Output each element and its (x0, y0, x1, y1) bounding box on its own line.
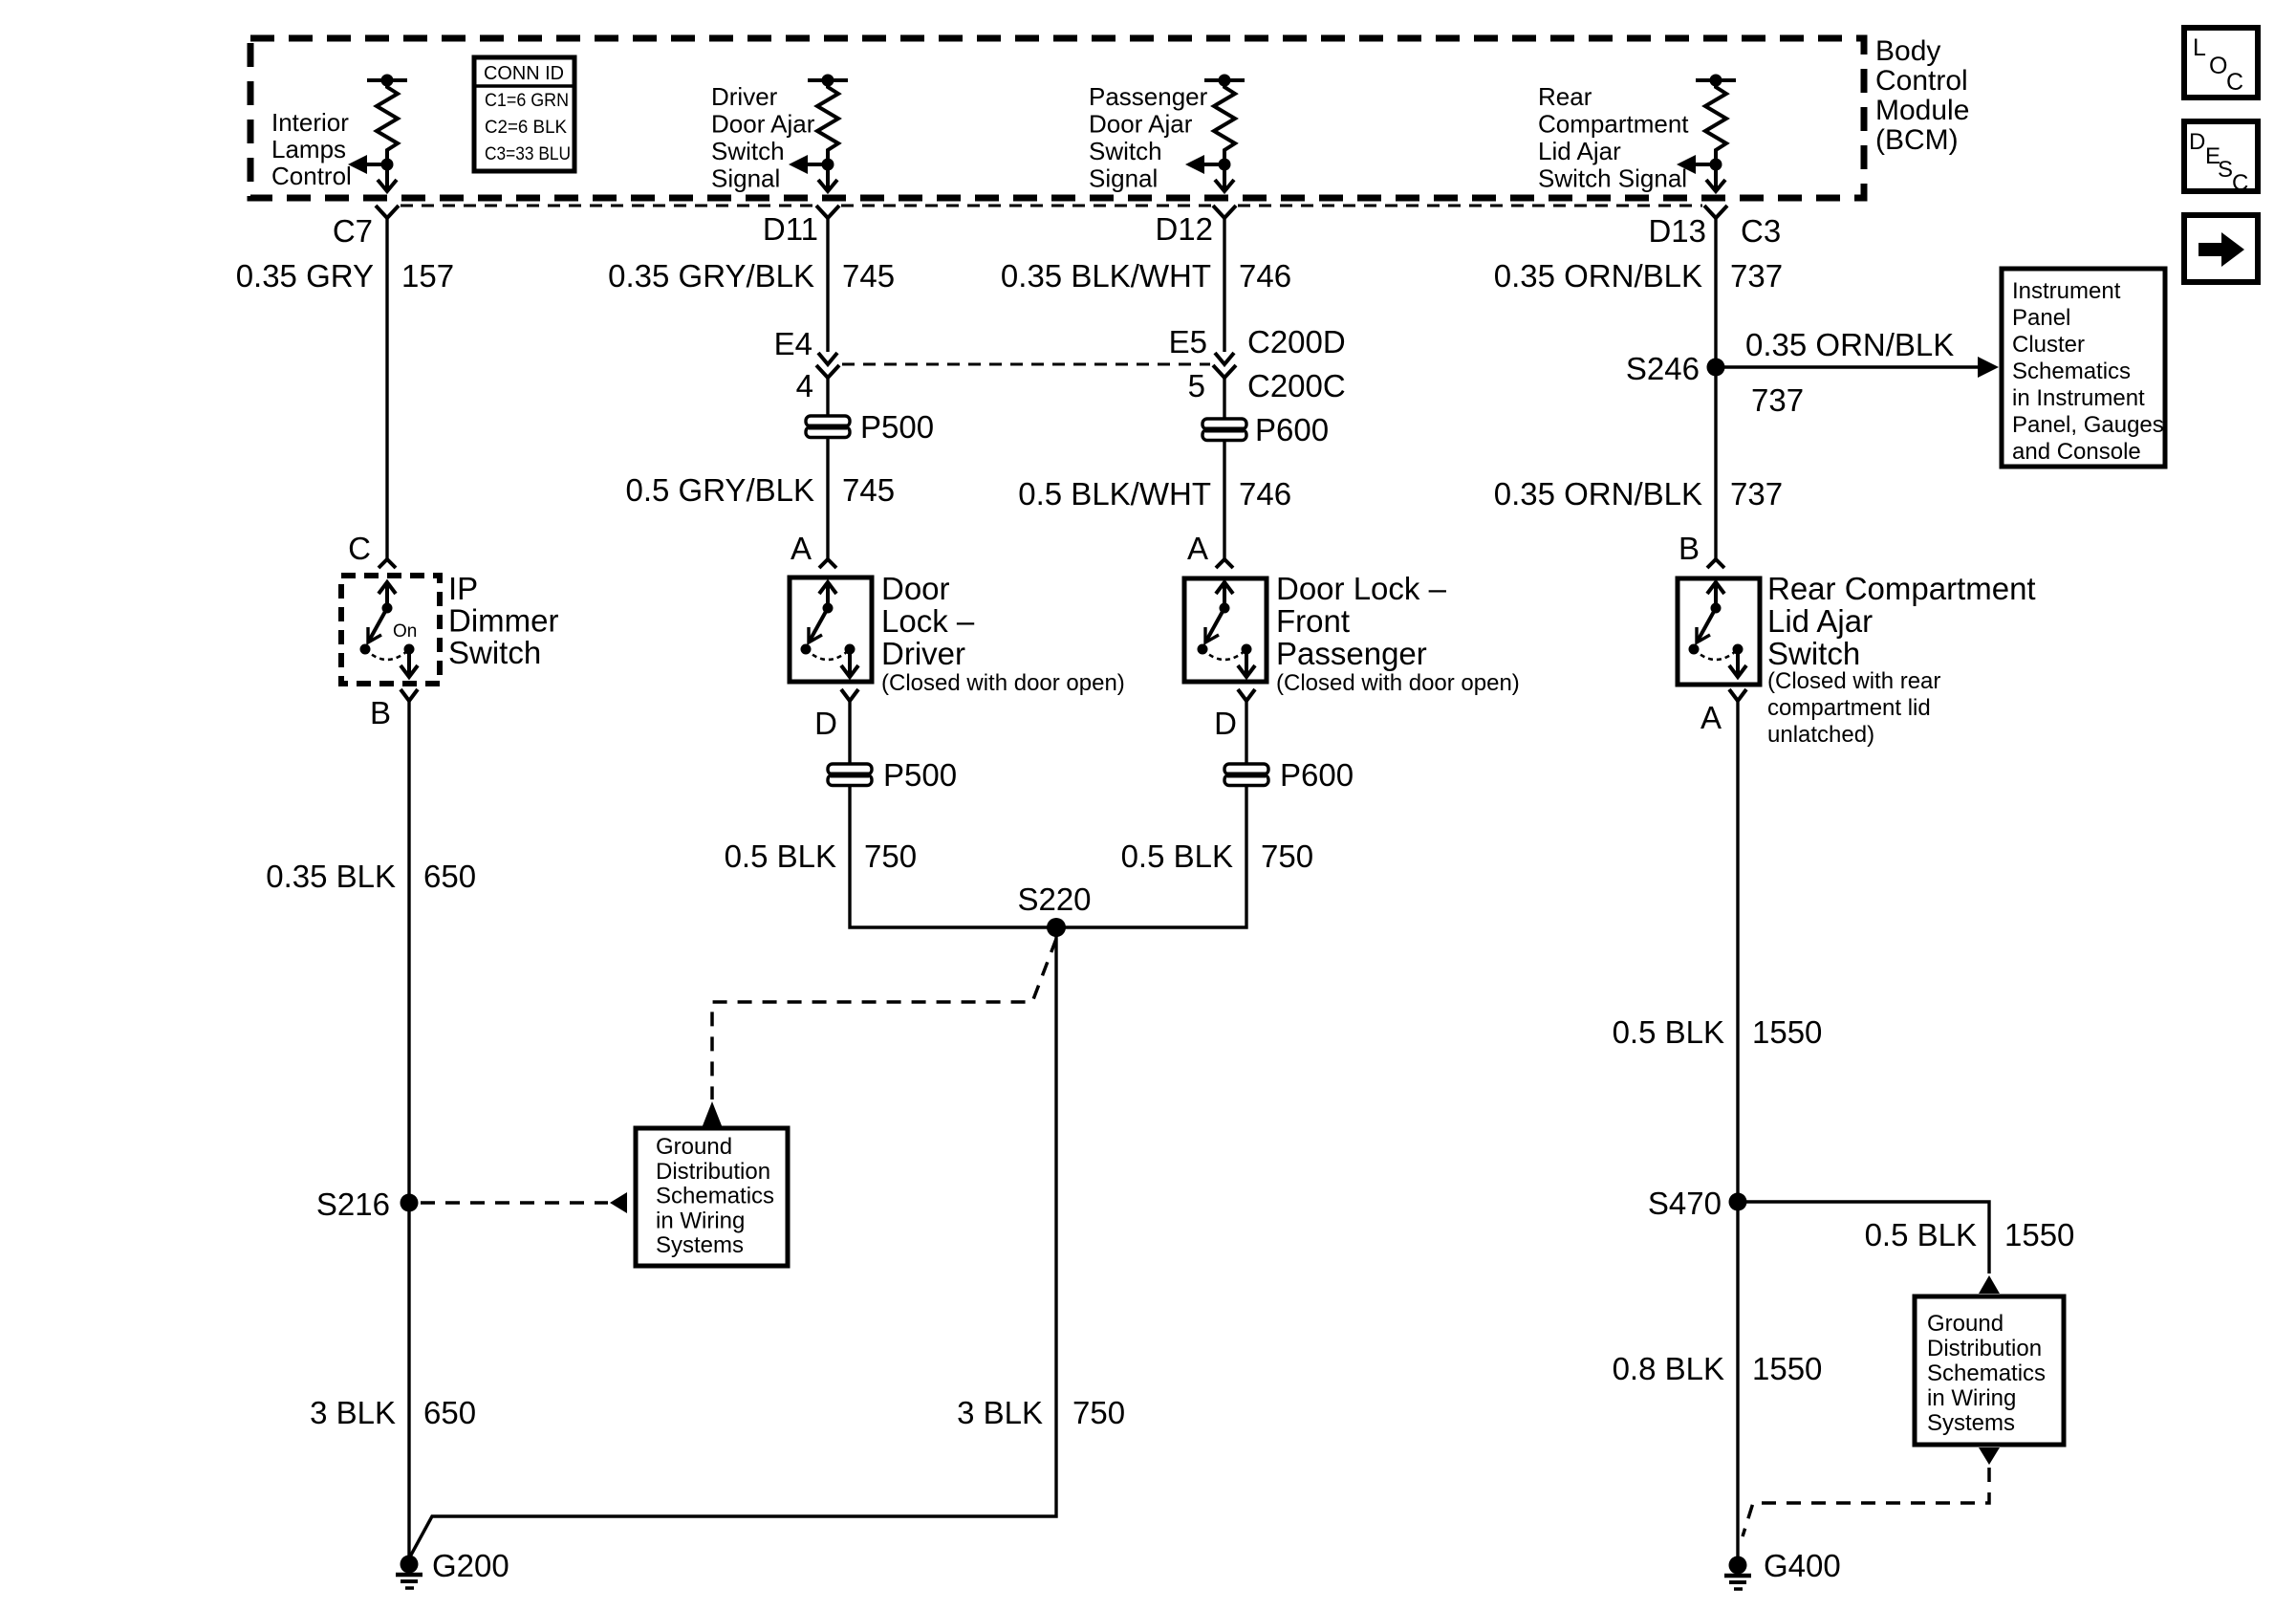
svg-text:Control: Control (1875, 65, 1968, 97)
svg-text:Driver: Driver (881, 636, 965, 671)
wire 737 ORN/BLK upper segment (D13/C3 to S246) (1714, 218, 1717, 559)
Body Control Module (BCM) dashed box (250, 38, 1864, 198)
BCM pin exit wire w/ arrowhead col x=1795 (1706, 164, 1725, 191)
wire segment driver switch to P500 lower (848, 701, 851, 763)
resistor R interior lamps control (BCM internal pull-up) (367, 75, 407, 171)
svg-text:0.35 ORN/BLK: 0.35 ORN/BLK (1494, 258, 1702, 294)
BCM signal label: Passenger Door Ajar Switch Signal (1089, 82, 1208, 193)
svg-text:S246: S246 (1626, 351, 1700, 386)
C200 chevron col3 (1213, 365, 1236, 378)
svg-text:Module: Module (1875, 95, 1969, 126)
door lock front passenger switch internals (1198, 582, 1256, 677)
svg-text:750: 750 (864, 838, 917, 874)
terminal chevron above rear switch (1707, 559, 1724, 568)
connector terminal chevron at x=405 (376, 206, 399, 218)
BCM name label (1875, 35, 1969, 156)
svg-text:Schematics: Schematics (1927, 1361, 2046, 1386)
IP dimmer switch dashed box (341, 576, 440, 684)
terminal chevron below dimmer switch (401, 689, 418, 701)
svg-text:3 BLK: 3 BLK (310, 1395, 396, 1430)
wire label 0.5 GRY/BLK 745 (625, 472, 895, 508)
wire label 0.5 BLK 750 (driver side) (725, 838, 917, 874)
svg-text:Front: Front (1276, 603, 1350, 639)
svg-text:(BCM): (BCM) (1875, 124, 1959, 156)
wire 750 BLK segment (P500 to S220) (850, 786, 1056, 927)
svg-text:C200C: C200C (1247, 368, 1346, 403)
svg-text:Ground: Ground (656, 1134, 732, 1160)
Rear Compartment Lid Ajar Switch label (1767, 571, 2036, 748)
svg-text:Switch Signal: Switch Signal (1538, 164, 1687, 193)
svg-text:B: B (370, 695, 391, 730)
terminal 5 / connector C200C (1188, 368, 1346, 403)
terminal chevron above passenger switch (1216, 559, 1233, 568)
svg-text:C1=6 GRN: C1=6 GRN (485, 90, 569, 111)
connector terminal chevron at x=1281 (1213, 206, 1236, 218)
svg-text:A: A (1187, 531, 1208, 566)
BCM signal label: Interior Lamps Control (271, 108, 352, 190)
svg-text:0.35 ORN/BLK: 0.35 ORN/BLK (1494, 476, 1702, 512)
svg-text:Panel, Gauges: Panel, Gauges (2012, 412, 2164, 438)
wire 650 BLK segment (dimmer to G200) (407, 701, 410, 1560)
resistor R rear compartment lid ajar (BCM internal pull-up) (1696, 75, 1736, 171)
svg-text:737: 737 (1751, 382, 1804, 418)
svg-text:0.35 GRY/BLK: 0.35 GRY/BLK (608, 258, 814, 294)
svg-text:Lid Ajar: Lid Ajar (1767, 603, 1873, 639)
svg-text:5: 5 (1188, 368, 1205, 403)
grommet P500 (upper) (806, 409, 934, 445)
ground distribution schematics box (left) (636, 1128, 788, 1266)
svg-text:C: C (2232, 170, 2248, 196)
forward arrow box (2184, 215, 2258, 282)
svg-text:On: On (393, 621, 417, 642)
DESC reference box (2184, 121, 2258, 196)
terminal chevron above dimmer switch (379, 559, 396, 568)
svg-text:1550: 1550 (1752, 1351, 1822, 1386)
svg-text:0.5 BLK: 0.5 BLK (1613, 1014, 1724, 1050)
svg-text:746: 746 (1239, 476, 1291, 512)
svg-text:A: A (1700, 700, 1722, 735)
svg-text:1550: 1550 (1752, 1014, 1822, 1050)
svg-text:745: 745 (842, 472, 895, 508)
Door Lock Driver label (881, 571, 1125, 696)
svg-text:P500: P500 (860, 409, 934, 445)
wire 750 BLK segment (S220 to G200) (409, 927, 1056, 1558)
C200 arrowhead col2 (818, 353, 837, 364)
svg-text:Signal: Signal (711, 164, 780, 193)
svg-text:(Closed with door open): (Closed with door open) (881, 670, 1125, 696)
svg-text:Distribution: Distribution (1927, 1336, 2042, 1361)
svg-text:0.35 ORN/BLK: 0.35 ORN/BLK (1745, 327, 1954, 362)
splice S246 (1626, 351, 1725, 386)
svg-text:0.5 BLK/WHT: 0.5 BLK/WHT (1018, 476, 1211, 512)
resistor R driver door ajar (BCM internal pull-up) (808, 75, 848, 171)
IP Dimmer Switch label (448, 571, 558, 670)
svg-text:0.5 BLK: 0.5 BLK (1865, 1217, 1977, 1252)
terminal chevron below rear switch (1729, 689, 1746, 701)
svg-text:1550: 1550 (2004, 1217, 2074, 1252)
svg-text:Distribution: Distribution (656, 1159, 770, 1185)
svg-text:Signal: Signal (1089, 164, 1158, 193)
wire 1550 BLK segment (rear switch to S470) (1736, 701, 1739, 1560)
svg-text:in Wiring: in Wiring (1927, 1385, 2016, 1411)
svg-text:Passenger: Passenger (1089, 82, 1208, 111)
svg-text:Door Ajar: Door Ajar (711, 110, 815, 139)
svg-text:in Instrument: in Instrument (2012, 385, 2145, 411)
ground G400 (1724, 1548, 1841, 1589)
svg-text:Cluster: Cluster (2012, 332, 2085, 358)
wire label 0.35 GRY/BLK 745 (608, 258, 895, 294)
svg-text:745: 745 (842, 258, 895, 294)
svg-text:Systems: Systems (1927, 1410, 2015, 1436)
svg-text:0.8 BLK: 0.8 BLK (1613, 1351, 1724, 1386)
signal tap arrow at R passenger door ajar (1185, 155, 1224, 174)
C200 arrowhead col3 (1215, 353, 1234, 364)
S470 branch wire to ground distribution box (right) (1738, 1202, 2074, 1294)
svg-text:D: D (814, 706, 837, 741)
svg-text:0.5 BLK: 0.5 BLK (1121, 838, 1233, 874)
svg-text:C7: C7 (333, 213, 373, 249)
svg-text:G200: G200 (432, 1548, 509, 1583)
terminal E5 / connector C200D (1169, 324, 1346, 359)
svg-text:3 BLK: 3 BLK (957, 1395, 1043, 1430)
wire label 0.8 BLK 1550 (1613, 1351, 1823, 1386)
svg-text:Rear: Rear (1538, 82, 1592, 111)
wire label 0.5 BLK/WHT 746 (1018, 476, 1291, 512)
splice S470 (1648, 1186, 1747, 1221)
svg-text:Compartment: Compartment (1538, 110, 1689, 139)
wire label 0.35 ORN/BLK 737 (lower) (1494, 476, 1783, 512)
svg-text:C: C (2226, 69, 2243, 96)
svg-text:Switch: Switch (711, 137, 785, 165)
svg-text:E5: E5 (1169, 324, 1207, 359)
door lock driver switch internals (801, 582, 859, 677)
LOC reference box (2184, 28, 2258, 98)
svg-text:0.5 BLK: 0.5 BLK (725, 838, 836, 874)
wire 745 GRY/BLK lower segment (P500 to switch) (826, 438, 829, 559)
svg-text:Lamps: Lamps (271, 135, 346, 163)
signal tap arrow at R rear compartment lid ajar (1677, 155, 1716, 174)
svg-text:A: A (791, 531, 812, 566)
svg-text:Schematics: Schematics (656, 1184, 774, 1209)
door lock front passenger switch box (1184, 578, 1267, 682)
wire 745 GRY/BLK upper segment (D11 to C200) (826, 218, 829, 352)
svg-text:Rear Compartment: Rear Compartment (1767, 571, 2036, 606)
CONN ID table (474, 57, 574, 171)
svg-text:Switch: Switch (1089, 137, 1162, 165)
svg-text:0.5 GRY/BLK: 0.5 GRY/BLK (625, 472, 814, 508)
svg-text:Systems: Systems (656, 1232, 744, 1258)
wire label 0.35 ORN/BLK 737 (upper) (1494, 258, 1783, 294)
splice S220 (1017, 882, 1091, 937)
svg-text:650: 650 (423, 859, 476, 894)
wire label 0.35 GRY 157 (236, 258, 454, 294)
wire segment C200 to P500 (826, 378, 829, 415)
svg-text:750: 750 (1261, 838, 1313, 874)
resistor R passenger door ajar (BCM internal pull-up) (1204, 75, 1245, 171)
svg-text:737: 737 (1730, 476, 1783, 512)
S216 reference dashed line to ground distribution box (421, 1192, 627, 1213)
svg-text:Body: Body (1875, 35, 1940, 67)
svg-text:0.35 BLK/WHT: 0.35 BLK/WHT (1001, 258, 1211, 294)
svg-text:750: 750 (1072, 1395, 1125, 1430)
svg-text:Switch: Switch (448, 635, 541, 670)
svg-text:4: 4 (796, 368, 813, 403)
svg-text:B: B (1679, 531, 1700, 566)
terminal chevron below driver switch (841, 689, 858, 701)
svg-text:in Wiring: in Wiring (656, 1208, 745, 1233)
svg-text:and Console: and Console (2012, 439, 2141, 465)
wire segment passenger switch to P600 lower (1245, 701, 1247, 763)
svg-text:0.35 BLK: 0.35 BLK (266, 859, 396, 894)
svg-text:C: C (348, 531, 371, 566)
rear compartment lid ajar switch box (1678, 578, 1760, 685)
svg-text:P500: P500 (883, 757, 957, 793)
BCM pin exit wire w/ arrowhead col x=866 (818, 164, 837, 191)
BCM signal label: Rear Compartment Lid Ajar Switch Signal (1538, 82, 1689, 193)
grommet P600 (lower) (1224, 757, 1354, 793)
connector terminal chevron at x=1795 (1704, 206, 1727, 218)
svg-text:C3=33 BLU: C3=33 BLU (485, 143, 571, 164)
svg-text:Driver: Driver (711, 82, 778, 111)
svg-text:0.35 GRY: 0.35 GRY (236, 258, 374, 294)
svg-text:650: 650 (423, 1395, 476, 1430)
svg-text:G400: G400 (1764, 1548, 1841, 1583)
svg-text:O: O (2209, 53, 2227, 79)
svg-text:P600: P600 (1255, 412, 1329, 447)
door lock driver switch box (790, 577, 872, 682)
svg-text:L: L (2193, 34, 2206, 61)
svg-text:Dimmer: Dimmer (448, 603, 558, 639)
svg-text:Lid Ajar: Lid Ajar (1538, 137, 1621, 165)
svg-text:Switch: Switch (1767, 636, 1860, 671)
svg-text:D12: D12 (1155, 211, 1213, 247)
reference arrow below right ground box (1743, 1448, 2000, 1536)
wire label 3 BLK 750 (957, 1395, 1125, 1430)
svg-text:S470: S470 (1648, 1186, 1722, 1221)
wire label 3 BLK 650 (310, 1395, 476, 1430)
wire label 0.5 BLK 1550 (1613, 1014, 1823, 1050)
signal tap arrow at R driver door ajar (789, 155, 828, 174)
svg-text:D: D (1214, 706, 1237, 741)
svg-text:E4: E4 (774, 326, 812, 361)
ground G200 (396, 1548, 509, 1588)
svg-text:Ground: Ground (1927, 1311, 2004, 1337)
svg-text:C3: C3 (1741, 213, 1781, 249)
wire 750 BLK segment (P600 to S220) (1056, 786, 1246, 927)
connector C200 dashed line (842, 363, 1210, 366)
svg-text:unlatched): unlatched) (1767, 722, 1874, 748)
connector terminal chevron at x=866 (816, 206, 839, 218)
svg-text:Door Ajar: Door Ajar (1089, 110, 1193, 139)
BCM signal label: Driver Door Ajar Switch Signal (711, 82, 815, 193)
svg-text:D11: D11 (763, 211, 818, 247)
ground distribution schematics box (right) (1915, 1296, 2064, 1445)
svg-text:C200D: C200D (1247, 324, 1346, 359)
wire 746 BLK/WHT lower segment (1223, 441, 1225, 559)
C200 chevron col2 (816, 365, 839, 378)
instrument panel cluster schematics box (2002, 269, 2165, 467)
svg-text:CONN ID: CONN ID (484, 62, 564, 84)
Door Lock Front Passenger label (1276, 571, 1520, 696)
rear compartment lid ajar switch internals (1689, 582, 1747, 677)
signal tap arrow at R interior lamps control (348, 155, 387, 174)
terminal chevron below passenger switch (1238, 689, 1255, 701)
BCM pin exit wire w/ arrowhead col x=1281 (1215, 164, 1234, 191)
wire segment C200 to P600 (1223, 378, 1225, 418)
BCM pin exit wire w/ arrowhead col x=405 (378, 164, 397, 191)
svg-text:Passenger: Passenger (1276, 636, 1427, 671)
svg-text:D: D (2189, 129, 2205, 155)
svg-text:Door: Door (881, 571, 950, 606)
svg-text:Interior: Interior (271, 108, 349, 137)
svg-text:(Closed with rear: (Closed with rear (1767, 668, 1940, 694)
svg-text:Control: Control (271, 162, 352, 190)
svg-text:157: 157 (401, 258, 454, 294)
svg-text:C2=6 BLK: C2=6 BLK (485, 117, 567, 138)
svg-text:S220: S220 (1017, 882, 1091, 917)
svg-text:IP: IP (448, 571, 478, 606)
svg-text:737: 737 (1730, 258, 1783, 294)
svg-text:Panel: Panel (2012, 305, 2070, 331)
grommet P500 (lower) (828, 757, 957, 793)
svg-text:Instrument: Instrument (2012, 278, 2121, 304)
svg-text:Schematics: Schematics (2012, 359, 2131, 384)
svg-text:compartment lid: compartment lid (1767, 695, 1931, 721)
svg-text:(Closed with door open): (Closed with door open) (1276, 670, 1520, 696)
S220 reference dashed line to ground distribution box (702, 939, 1056, 1128)
svg-text:746: 746 (1239, 258, 1291, 294)
svg-text:Door Lock –: Door Lock – (1276, 571, 1447, 606)
wire label 0.35 BLK/WHT 746 (1001, 258, 1291, 294)
IP dimmer switch internals (360, 582, 419, 677)
splice S216 (316, 1186, 419, 1222)
svg-text:D13: D13 (1648, 213, 1706, 249)
svg-text:S216: S216 (316, 1186, 390, 1222)
wire 746 BLK/WHT upper segment (D12 to C200) (1223, 218, 1225, 352)
terminal chevron above driver switch (819, 559, 836, 568)
wire label 0.35 BLK 650 (266, 859, 476, 894)
wire 157 GRY segment (C7 to dimmer switch) (385, 218, 388, 559)
BCM connector line (thin dashed) (401, 205, 814, 207)
svg-text:Lock –: Lock – (881, 603, 975, 639)
S246 branch wire to instrument panel cluster (1716, 327, 1999, 418)
wire label 0.5 BLK 750 (passenger side) (1121, 838, 1313, 874)
svg-text:P600: P600 (1280, 757, 1354, 793)
grommet P600 (upper) (1202, 412, 1329, 447)
svg-text:S: S (2218, 157, 2233, 183)
